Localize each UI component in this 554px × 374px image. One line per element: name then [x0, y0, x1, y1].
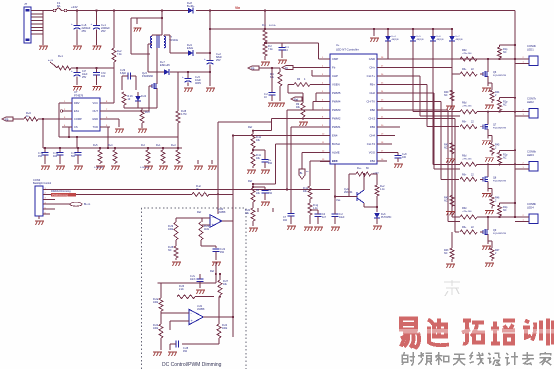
svg-text:100k: 100k	[153, 301, 159, 304]
svg-text:R6+: R6+	[462, 173, 467, 176]
svg-text:J?: J?	[24, 2, 28, 6]
svg-text:CH2: CH2	[369, 91, 375, 95]
svg-text:LED2: LED2	[527, 100, 534, 104]
svg-text:CMP: CMP	[332, 57, 338, 61]
svg-text:+: +	[204, 57, 206, 61]
svg-text:VCC: VCC	[332, 159, 338, 163]
svg-text:PWM4: PWM4	[332, 100, 341, 104]
svg-text:NC: NC	[503, 156, 507, 159]
svg-text:CS: CS	[74, 125, 78, 129]
svg-text:100k: 100k	[168, 228, 174, 231]
svg-text:EN4: EN4	[332, 134, 338, 138]
svg-text:B+40+: B+40+	[187, 4, 195, 8]
svg-text:25V: 25V	[101, 29, 106, 33]
svg-text:25V: 25V	[82, 76, 87, 79]
svg-text:OUT: OUT	[93, 109, 99, 113]
svg-text:LM358: LM358	[218, 211, 226, 214]
svg-text:CHP: CHP	[332, 74, 338, 78]
svg-text:Ref: Ref	[210, 269, 214, 273]
svg-text:R+1: R+1	[58, 54, 63, 58]
svg-text:R6d: R6d	[462, 49, 467, 52]
svg-text:452: 452	[183, 350, 188, 353]
svg-text:CH-2: CH-2	[368, 117, 375, 121]
svg-text:COMP: COMP	[74, 117, 82, 121]
svg-text:+: +	[71, 69, 73, 73]
svg-text:R6+: R6+	[462, 226, 467, 229]
svg-text:100k: 100k	[222, 327, 228, 330]
svg-text:4.7M: 4.7M	[181, 113, 186, 116]
svg-text:Raf: Raf	[294, 97, 298, 101]
svg-text:LED4: LED4	[527, 206, 534, 210]
svg-text:LED3: LED3	[527, 153, 534, 157]
svg-text:+7Rx.266: +7Rx.266	[462, 158, 472, 160]
svg-text:FQD4N25TM: FQD4N25TM	[493, 233, 506, 235]
svg-text:400V: 400V	[195, 81, 201, 85]
svg-text:10n3: 10n3	[190, 278, 196, 281]
svg-text:ALME: ALME	[332, 151, 340, 155]
svg-text:TCD: TCD	[93, 125, 98, 129]
svg-text:452: 452	[38, 155, 43, 158]
svg-text:562: 562	[71, 155, 76, 158]
svg-text:BL on: BL on	[84, 203, 91, 206]
svg-text:FB3: FB3	[370, 125, 376, 129]
svg-text:DIM/Ad Dimming: DIM/Ad Dimming	[51, 189, 71, 193]
svg-text:R.27: R.27	[145, 111, 151, 114]
svg-text:GND: GND	[369, 57, 375, 61]
svg-text:GND: GND	[92, 117, 98, 121]
svg-text:U+: U+	[336, 43, 340, 47]
svg-text:2.2k: 2.2k	[179, 288, 184, 291]
svg-text:100: 100	[402, 156, 407, 159]
svg-text:Backlight Control: Backlight Control	[33, 182, 52, 185]
svg-text:D.24: D.24	[141, 95, 147, 98]
svg-text:404: 404	[53, 155, 58, 158]
svg-text:R6+: R6+	[462, 121, 467, 124]
svg-text:NC: NC	[444, 199, 448, 202]
svg-text:LED NT Controller: LED NT Controller	[336, 48, 359, 52]
svg-text:FB2: FB2	[370, 108, 376, 112]
svg-text:4R(2)B: 4R(2)B	[417, 39, 424, 41]
svg-text:+: +	[91, 22, 93, 26]
svg-text:110k: 110k	[204, 228, 210, 231]
svg-text:R+5: R+5	[93, 144, 98, 147]
svg-text:CH-T4: CH-T4	[367, 142, 376, 146]
svg-text:4R(2)B: 4R(2)B	[437, 39, 444, 41]
svg-text:NC: NC	[503, 51, 507, 54]
svg-text:R-2: R-2	[141, 144, 146, 147]
svg-text:PWM3: PWM3	[332, 108, 341, 112]
svg-text:DC Control/PWM Dimming: DC Control/PWM Dimming	[162, 362, 222, 368]
svg-text:PWM Dimming: PWM Dimming	[52, 194, 69, 197]
svg-text:+7Rx.266: +7Rx.266	[462, 106, 472, 108]
svg-text:64-10k: 64-10k	[269, 25, 277, 27]
svg-text:R+4: R+4	[108, 144, 113, 147]
svg-text:4R(2)B: 4R(2)B	[456, 39, 463, 41]
svg-text:R+d: R+d	[171, 144, 176, 147]
svg-text:CH4: CH4	[369, 134, 375, 138]
svg-text:LM358: LM358	[197, 308, 205, 311]
svg-text:CH-T+: CH-T+	[367, 74, 376, 78]
svg-text:LED1: LED1	[527, 48, 534, 52]
svg-text:CON8b: CON8b	[527, 202, 536, 206]
svg-text:PLT19HC: PLT19HC	[381, 216, 392, 219]
svg-text:VSEN: VSEN	[332, 83, 340, 87]
svg-text:100k: 100k	[153, 327, 159, 330]
svg-text:R6d: R6d	[462, 102, 467, 105]
svg-text:NC: NC	[168, 249, 172, 252]
svg-text:25V: 25V	[216, 58, 221, 62]
svg-text:DRV: DRV	[74, 101, 80, 105]
svg-text:CON6b: CON6b	[527, 149, 536, 153]
svg-text:0.16(1W): 0.16(1W)	[94, 167, 103, 169]
svg-text:FB4: FB4	[370, 159, 376, 163]
svg-text:R6+: R6+	[462, 68, 467, 71]
svg-text:4n7: 4n7	[322, 216, 327, 219]
svg-text:ES1: ES1	[74, 109, 79, 113]
svg-text:FS04N60: FS04N60	[142, 74, 154, 78]
svg-text:PWM5: PWM5	[332, 91, 341, 95]
svg-text:Vss: Vss	[336, 198, 341, 202]
svg-text:7.4k: 7.4k	[117, 53, 122, 56]
svg-text:7.4k: 7.4k	[268, 48, 273, 51]
svg-text:CON7b: CON7b	[527, 97, 536, 101]
svg-text:NC: NC	[444, 252, 448, 255]
svg-text:NC: NC	[503, 104, 507, 107]
svg-text:25V: 25V	[82, 29, 87, 33]
svg-text:FB+: FB+	[370, 83, 376, 87]
svg-text:0.16(1W): 0.16(1W)	[140, 167, 149, 169]
svg-text:4R(2)B: 4R(2)B	[392, 39, 399, 41]
svg-text:ES2x: ES2x	[187, 46, 194, 50]
svg-text:Fb: Fb	[332, 66, 336, 70]
svg-text:Ref: Ref	[197, 210, 201, 214]
svg-text:452: 452	[268, 192, 273, 195]
svg-text:+24V: +24V	[71, 5, 78, 9]
svg-text:R+1: R+1	[156, 144, 161, 147]
svg-text:6.8pF: 6.8pF	[120, 72, 127, 75]
svg-text:FQD4N25TM: FQD4N25TM	[493, 75, 506, 77]
svg-text:Ref: Ref	[248, 125, 252, 129]
svg-text:R.u: R.u	[262, 24, 266, 27]
svg-text:+: +	[71, 22, 73, 26]
svg-text:ESD+45: ESD+45	[160, 63, 170, 67]
svg-text:8A: 8A	[57, 4, 61, 8]
svg-text:CH+: CH+	[369, 66, 375, 70]
svg-text:VGG: VGG	[369, 151, 375, 155]
svg-text:NC: NC	[503, 209, 507, 212]
svg-text:FB: FB	[5, 117, 9, 121]
svg-text:FQD4N25TM: FQD4N25TM	[493, 180, 506, 182]
svg-text:+7Rx.266: +7Rx.266	[462, 53, 472, 55]
svg-text:FQD4N25TM: FQD4N25TM	[493, 128, 506, 130]
svg-text:452: 452	[220, 251, 225, 254]
svg-text:R6d: R6d	[462, 154, 467, 157]
svg-text:VCC: VCC	[93, 101, 99, 105]
svg-text:PWM2: PWM2	[332, 117, 341, 121]
svg-text:PT4579: PT4579	[74, 94, 84, 98]
svg-text:PWM1: PWM1	[332, 125, 341, 129]
svg-text:R6d: R6d	[462, 207, 467, 210]
svg-text:10uF: 10uF	[339, 216, 345, 219]
svg-text:CH-TV: CH-TV	[366, 100, 375, 104]
svg-text:U?: U?	[74, 90, 78, 94]
svg-text:462: 462	[283, 219, 288, 222]
svg-text:+: +	[182, 75, 184, 79]
svg-text:104: 104	[101, 75, 106, 78]
svg-text:R++: R++	[357, 167, 362, 170]
svg-text:NC: NC	[444, 147, 448, 150]
svg-text:1.1k: 1.1k	[380, 188, 385, 191]
svg-text:Ref: Ref	[248, 179, 252, 183]
svg-text:452: 452	[268, 162, 273, 165]
svg-text:Vin: Vin	[235, 6, 240, 10]
svg-text:FB: FB	[251, 66, 255, 70]
svg-text:b+24: b+24	[48, 60, 54, 62]
svg-text:CON3b: CON3b	[527, 44, 536, 48]
svg-text:+7Rx.266: +7Rx.266	[462, 211, 472, 213]
svg-text:NC: NC	[444, 94, 448, 97]
svg-text:BUSH: BUSH	[332, 142, 340, 146]
